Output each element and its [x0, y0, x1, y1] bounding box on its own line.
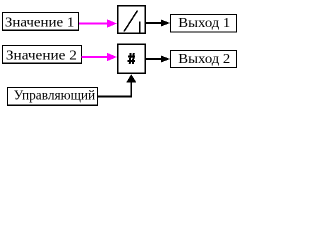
source box Значение 2	[3, 46, 82, 64]
wire Значение 2 to # block (magenta)	[82, 53, 118, 62]
svg-text:Значение 2: Значение 2	[6, 49, 77, 64]
output box Выход 1	[171, 15, 237, 33]
svg-text:Выход 1: Выход 1	[178, 16, 230, 31]
svg-text:Выход 2: Выход 2	[178, 52, 230, 67]
wire # block to Выход 2	[145, 55, 170, 62]
wire switch block to Выход 1	[145, 19, 170, 26]
output box Выход 2	[171, 51, 237, 68]
wire Значение 1 to switch block (magenta)	[79, 19, 117, 28]
svg-text:Управляющий: Управляющий	[14, 88, 96, 103]
control wire Управляющий to # block	[98, 74, 137, 96]
switch block U1	[118, 6, 146, 34]
comparator block #	[118, 44, 146, 73]
source box Значение 1	[3, 13, 79, 31]
source box Управляющий	[8, 88, 98, 106]
svg-text:Значение 1: Значение 1	[5, 15, 75, 30]
